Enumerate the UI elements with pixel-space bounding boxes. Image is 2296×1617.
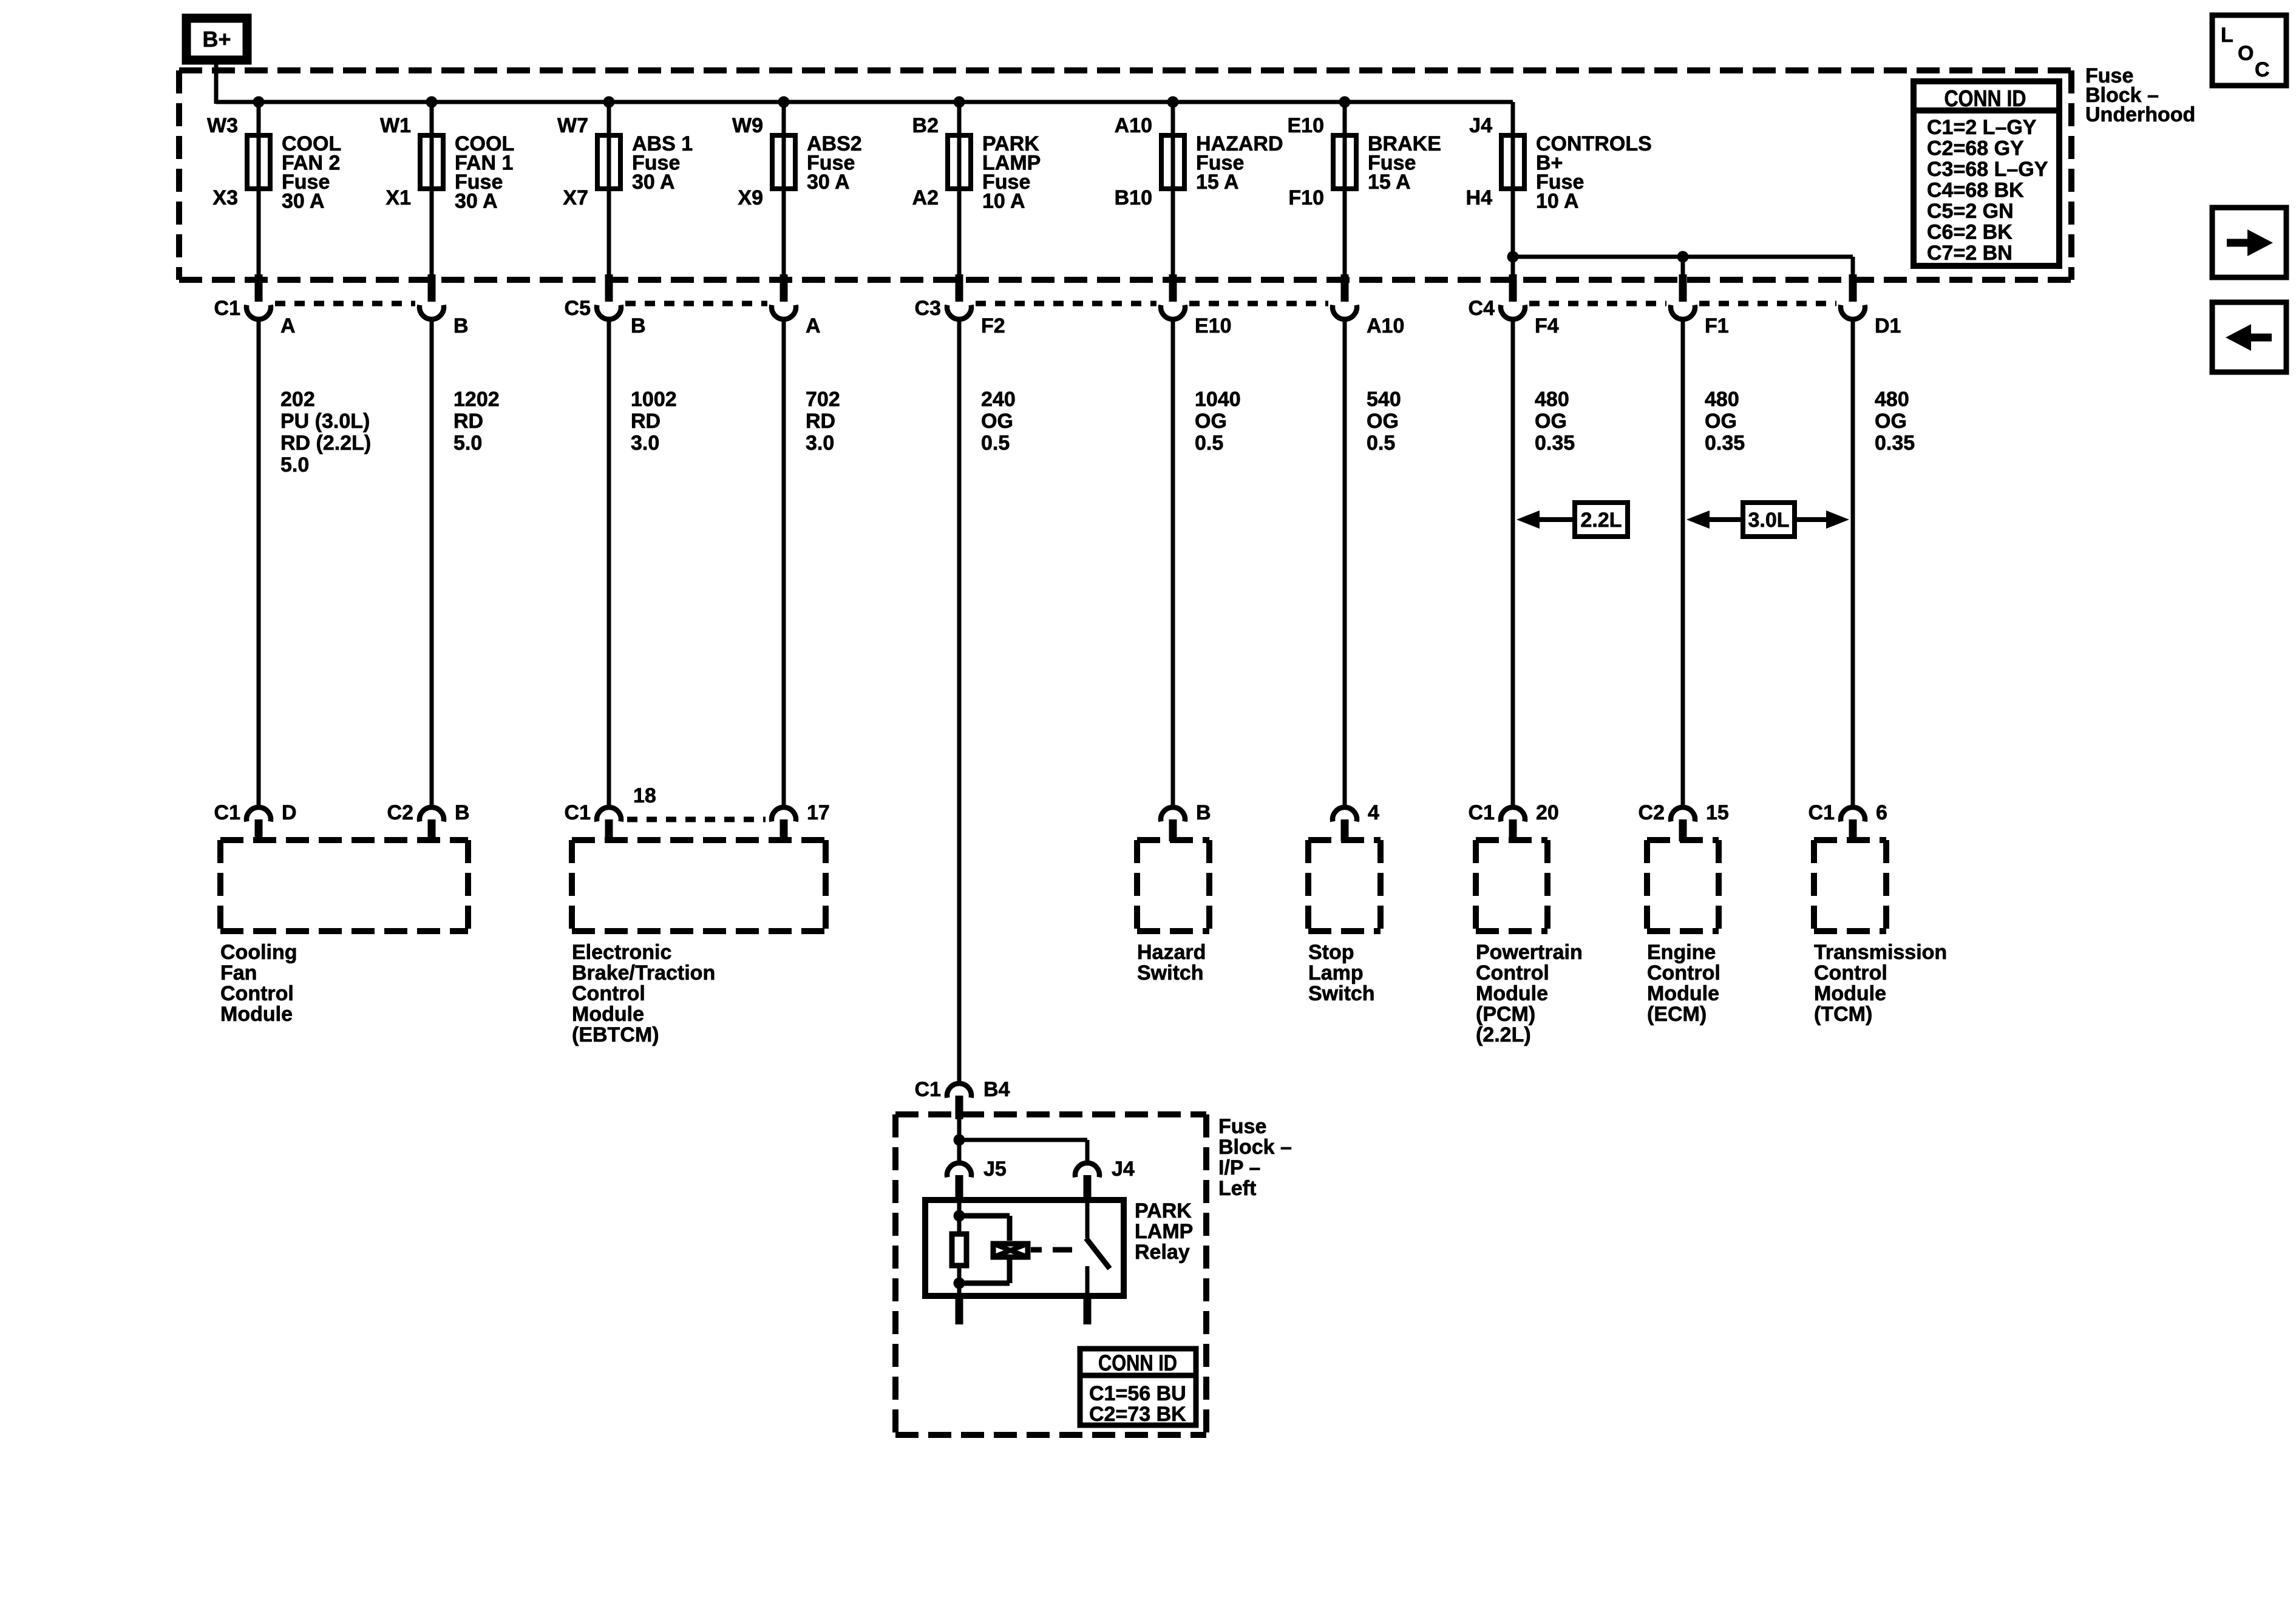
svg-text:B2: B2 xyxy=(912,114,939,137)
svg-text:Relay: Relay xyxy=(1135,1241,1190,1264)
svg-text:3.0L: 3.0L xyxy=(1748,509,1789,532)
svg-text:30 A: 30 A xyxy=(632,171,675,194)
svg-text:X9: X9 xyxy=(738,186,763,209)
svg-text:Powertrain: Powertrain xyxy=(1476,941,1583,964)
svg-text:5.0: 5.0 xyxy=(453,432,482,455)
svg-text:CONN ID: CONN ID xyxy=(1944,86,2026,112)
svg-text:18: 18 xyxy=(633,784,656,807)
svg-text:B10: B10 xyxy=(1115,186,1152,209)
svg-text:L: L xyxy=(2221,24,2233,47)
svg-text:3.0: 3.0 xyxy=(806,432,834,455)
svg-text:(ECM): (ECM) xyxy=(1647,1003,1707,1026)
svg-text:480: 480 xyxy=(1535,388,1569,411)
svg-text:O: O xyxy=(2238,42,2254,65)
svg-text:15 A: 15 A xyxy=(1196,171,1239,194)
svg-text:LAMP: LAMP xyxy=(1135,1220,1193,1243)
svg-text:C1: C1 xyxy=(565,801,591,824)
svg-text:C1: C1 xyxy=(915,1078,941,1101)
svg-text:C4: C4 xyxy=(1469,297,1495,320)
svg-text:Module: Module xyxy=(1814,982,1886,1005)
svg-text:1040: 1040 xyxy=(1195,388,1241,411)
svg-text:A: A xyxy=(280,314,296,337)
svg-text:15 A: 15 A xyxy=(1368,171,1411,194)
svg-text:C1: C1 xyxy=(1469,801,1495,824)
svg-text:Underhood: Underhood xyxy=(2085,103,2195,126)
svg-text:Stop: Stop xyxy=(1308,941,1354,964)
svg-text:W7: W7 xyxy=(557,114,588,137)
svg-text:C2=68 GY: C2=68 GY xyxy=(1927,137,2024,160)
svg-text:J5: J5 xyxy=(983,1158,1007,1181)
svg-text:30 A: 30 A xyxy=(807,171,850,194)
svg-text:202: 202 xyxy=(280,388,315,411)
svg-text:Brake/Traction: Brake/Traction xyxy=(572,961,715,985)
svg-text:0.5: 0.5 xyxy=(1367,432,1395,455)
svg-text:C2=73 BK: C2=73 BK xyxy=(1089,1403,1186,1426)
svg-text:B: B xyxy=(455,801,470,824)
svg-text:C1=2 L–GY: C1=2 L–GY xyxy=(1927,116,2037,139)
svg-text:0.35: 0.35 xyxy=(1535,432,1575,455)
svg-text:E10: E10 xyxy=(1195,314,1232,337)
svg-text:C1: C1 xyxy=(214,297,240,320)
svg-text:Block –: Block – xyxy=(1218,1136,1292,1159)
svg-text:C5: C5 xyxy=(565,297,591,320)
svg-text:B: B xyxy=(453,314,469,337)
svg-text:480: 480 xyxy=(1875,388,1909,411)
svg-text:A10: A10 xyxy=(1115,114,1152,137)
svg-text:W9: W9 xyxy=(732,114,763,137)
svg-text:F1: F1 xyxy=(1705,314,1729,337)
svg-text:Engine: Engine xyxy=(1647,941,1716,964)
svg-text:Module: Module xyxy=(220,1003,293,1026)
svg-text:J4: J4 xyxy=(1112,1158,1135,1181)
svg-text:OG: OG xyxy=(1367,410,1399,433)
svg-text:X7: X7 xyxy=(563,186,588,209)
svg-text:10 A: 10 A xyxy=(1536,190,1579,213)
svg-text:D: D xyxy=(282,801,297,824)
svg-text:C1: C1 xyxy=(214,801,240,824)
svg-text:Hazard: Hazard xyxy=(1137,941,1206,964)
svg-text:0.5: 0.5 xyxy=(981,432,1010,455)
svg-text:0.5: 0.5 xyxy=(1195,432,1223,455)
svg-text:(2.2L): (2.2L) xyxy=(1476,1023,1531,1046)
svg-text:I/P –: I/P – xyxy=(1218,1156,1260,1179)
svg-text:240: 240 xyxy=(981,388,1016,411)
svg-text:0.35: 0.35 xyxy=(1875,432,1915,455)
svg-text:Switch: Switch xyxy=(1308,982,1375,1005)
svg-text:CONN ID: CONN ID xyxy=(1098,1351,1177,1375)
svg-text:Control: Control xyxy=(220,982,294,1005)
svg-text:6: 6 xyxy=(1876,801,1887,824)
svg-text:30 A: 30 A xyxy=(455,190,498,213)
svg-text:H4: H4 xyxy=(1466,186,1493,209)
svg-text:1002: 1002 xyxy=(631,388,677,411)
svg-text:(EBTCM): (EBTCM) xyxy=(572,1023,659,1046)
svg-text:C5=2 GN: C5=2 GN xyxy=(1927,200,2014,223)
svg-text:Control: Control xyxy=(1814,961,1887,985)
svg-text:OG: OG xyxy=(1875,410,1907,433)
svg-text:PARK: PARK xyxy=(1135,1199,1192,1222)
svg-text:B+: B+ xyxy=(202,27,231,52)
svg-text:1202: 1202 xyxy=(453,388,500,411)
svg-text:Transmission: Transmission xyxy=(1814,941,1947,964)
svg-text:Cooling: Cooling xyxy=(220,941,297,964)
svg-text:(PCM): (PCM) xyxy=(1476,1003,1535,1026)
svg-text:RD: RD xyxy=(453,410,483,433)
svg-text:D1: D1 xyxy=(1875,314,1901,337)
svg-text:C3: C3 xyxy=(915,297,941,320)
svg-text:2.2L: 2.2L xyxy=(1580,509,1622,532)
svg-text:OG: OG xyxy=(1705,410,1737,433)
svg-text:Module: Module xyxy=(572,1003,644,1026)
svg-text:A2: A2 xyxy=(912,186,939,209)
svg-text:Left: Left xyxy=(1218,1177,1256,1200)
svg-text:X1: X1 xyxy=(385,186,411,209)
svg-text:X3: X3 xyxy=(212,186,238,209)
svg-text:0.35: 0.35 xyxy=(1705,432,1745,455)
svg-text:B: B xyxy=(631,314,646,337)
svg-text:3.0: 3.0 xyxy=(631,432,659,455)
svg-text:15: 15 xyxy=(1706,801,1729,824)
svg-text:C4=68 BK: C4=68 BK xyxy=(1927,179,2024,202)
svg-text:C7=2 BN: C7=2 BN xyxy=(1927,242,2012,265)
svg-text:Lamp: Lamp xyxy=(1308,961,1364,985)
svg-text:Fan: Fan xyxy=(220,961,257,985)
svg-text:4: 4 xyxy=(1368,801,1379,824)
svg-text:B4: B4 xyxy=(983,1078,1010,1101)
svg-text:Module: Module xyxy=(1476,982,1548,1005)
svg-text:OG: OG xyxy=(981,410,1013,433)
svg-text:RD: RD xyxy=(631,410,661,433)
svg-text:F4: F4 xyxy=(1535,314,1559,337)
svg-text:F2: F2 xyxy=(981,314,1005,337)
svg-text:OG: OG xyxy=(1195,410,1227,433)
svg-text:C6=2 BK: C6=2 BK xyxy=(1927,221,2012,244)
svg-text:10 A: 10 A xyxy=(982,190,1025,213)
svg-text:Control: Control xyxy=(1476,961,1549,985)
svg-text:W3: W3 xyxy=(207,114,238,137)
svg-text:(TCM): (TCM) xyxy=(1814,1003,1872,1026)
svg-text:480: 480 xyxy=(1705,388,1739,411)
svg-text:C2: C2 xyxy=(387,801,413,824)
svg-text:RD: RD xyxy=(806,410,835,433)
svg-text:702: 702 xyxy=(806,388,840,411)
svg-text:Electronic: Electronic xyxy=(572,941,671,964)
svg-text:A: A xyxy=(806,314,821,337)
svg-text:W1: W1 xyxy=(380,114,411,137)
svg-text:E10: E10 xyxy=(1288,114,1325,137)
svg-text:Control: Control xyxy=(572,982,645,1005)
svg-text:C1: C1 xyxy=(1809,801,1835,824)
svg-text:20: 20 xyxy=(1536,801,1559,824)
svg-text:Module: Module xyxy=(1647,982,1719,1005)
svg-text:RD (2.2L): RD (2.2L) xyxy=(280,432,371,455)
svg-text:C3=68 L–GY: C3=68 L–GY xyxy=(1927,158,2048,181)
svg-text:C1=56 BU: C1=56 BU xyxy=(1089,1382,1186,1405)
svg-text:PU (3.0L): PU (3.0L) xyxy=(280,410,370,433)
svg-text:C: C xyxy=(2255,58,2270,81)
svg-text:Switch: Switch xyxy=(1137,961,1204,985)
svg-text:Control: Control xyxy=(1647,961,1720,985)
svg-text:30 A: 30 A xyxy=(282,190,325,213)
svg-text:A10: A10 xyxy=(1367,314,1404,337)
svg-text:17: 17 xyxy=(807,801,830,824)
svg-text:540: 540 xyxy=(1367,388,1401,411)
svg-text:Fuse: Fuse xyxy=(1218,1115,1266,1138)
svg-text:F10: F10 xyxy=(1288,186,1324,209)
svg-text:J4: J4 xyxy=(1469,114,1492,137)
svg-text:OG: OG xyxy=(1535,410,1567,433)
svg-text:B: B xyxy=(1196,801,1211,824)
svg-text:C2: C2 xyxy=(1639,801,1665,824)
svg-text:5.0: 5.0 xyxy=(280,453,309,476)
